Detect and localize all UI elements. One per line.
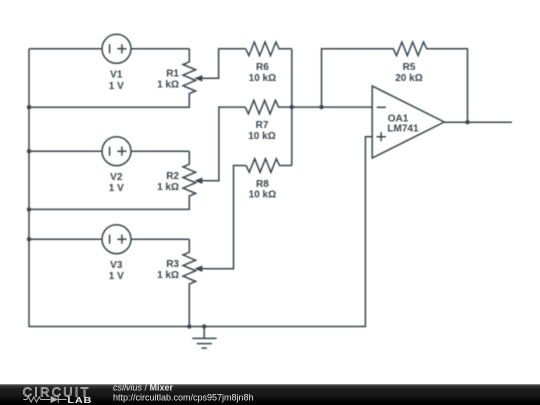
svg-text:V3: V3 (110, 260, 123, 271)
svg-text:V2: V2 (110, 172, 123, 183)
svg-text:1 V: 1 V (109, 271, 124, 282)
svg-text:20 kΩ: 20 kΩ (395, 73, 422, 84)
svg-text:1 kΩ: 1 kΩ (157, 270, 179, 281)
svg-text:R6: R6 (256, 62, 269, 73)
svg-text:1 V: 1 V (109, 81, 124, 92)
svg-text:R5: R5 (403, 62, 416, 73)
svg-text:1 kΩ: 1 kΩ (157, 182, 179, 193)
svg-text:R7: R7 (256, 120, 269, 131)
svg-text:10 kΩ: 10 kΩ (249, 190, 276, 201)
svg-text:LAB: LAB (67, 396, 92, 405)
svg-text:http://circuitlab.com/cps957jm: http://circuitlab.com/cps957jm8jn8h (113, 393, 254, 403)
svg-text:10 kΩ: 10 kΩ (248, 131, 275, 142)
svg-text:1 kΩ: 1 kΩ (157, 80, 179, 91)
svg-text:R8: R8 (256, 179, 269, 190)
svg-text:R1: R1 (166, 68, 179, 79)
svg-text:R3: R3 (166, 259, 179, 270)
svg-text:V1: V1 (110, 70, 123, 81)
svg-text:csilvius / Mixer: csilvius / Mixer (113, 384, 174, 393)
svg-text:R2: R2 (166, 171, 179, 182)
svg-text:10 kΩ: 10 kΩ (249, 73, 276, 84)
svg-text:1 V: 1 V (109, 183, 124, 194)
svg-text:LM741: LM741 (387, 124, 419, 135)
